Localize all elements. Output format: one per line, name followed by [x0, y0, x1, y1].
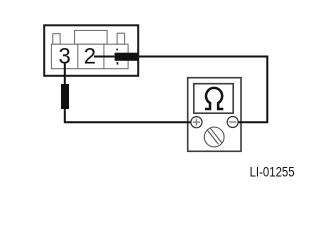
divider pin3|pin2	[77, 44, 79, 68]
test probe on pin 3 wire (vertical black bar)	[61, 84, 69, 109]
selector knob	[204, 127, 224, 147]
multimeter body	[188, 78, 241, 152]
lead wire from pin 2 into probe	[94, 56, 115, 58]
minus terminal	[227, 117, 238, 128]
connector housing outline	[44, 25, 138, 76]
connector tab left	[53, 34, 60, 45]
connector tab center	[75, 30, 108, 44]
multimeter display	[194, 84, 233, 114]
wire from pin 3 down to plus terminal of meter	[65, 63, 191, 123]
svg-text:LI-01255: LI-01255	[250, 165, 295, 180]
pin row box	[51, 44, 128, 68]
connector tab right	[117, 33, 125, 44]
divider pin2|pin1	[103, 44, 105, 68]
plus terminal	[191, 117, 202, 128]
pin 1 label (hidden behind probe, only tip and base visible)	[116, 49, 118, 51]
test probe on pin 1 (horizontal black bar)	[115, 53, 139, 61]
wire from probe right to minus terminal of meter	[139, 57, 268, 123]
ohm symbol	[205, 88, 223, 109]
